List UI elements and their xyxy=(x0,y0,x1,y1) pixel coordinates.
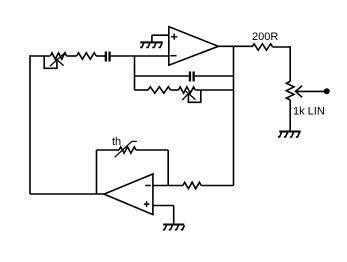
svg-text:th: th xyxy=(112,136,121,148)
svg-text:200R: 200R xyxy=(252,31,278,43)
svg-text:1k LIN: 1k LIN xyxy=(293,106,325,118)
